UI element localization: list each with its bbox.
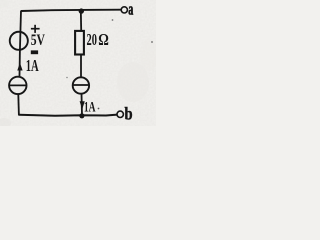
svg-text:Ω: Ω (98, 30, 109, 49)
svg-text:1A: 1A (84, 99, 96, 116)
svg-text:b: b (125, 103, 133, 123)
svg-text:20: 20 (87, 30, 97, 49)
svg-text:5V: 5V (31, 31, 46, 49)
svg-text:a: a (128, 0, 133, 19)
svg-text:1A: 1A (26, 56, 39, 75)
